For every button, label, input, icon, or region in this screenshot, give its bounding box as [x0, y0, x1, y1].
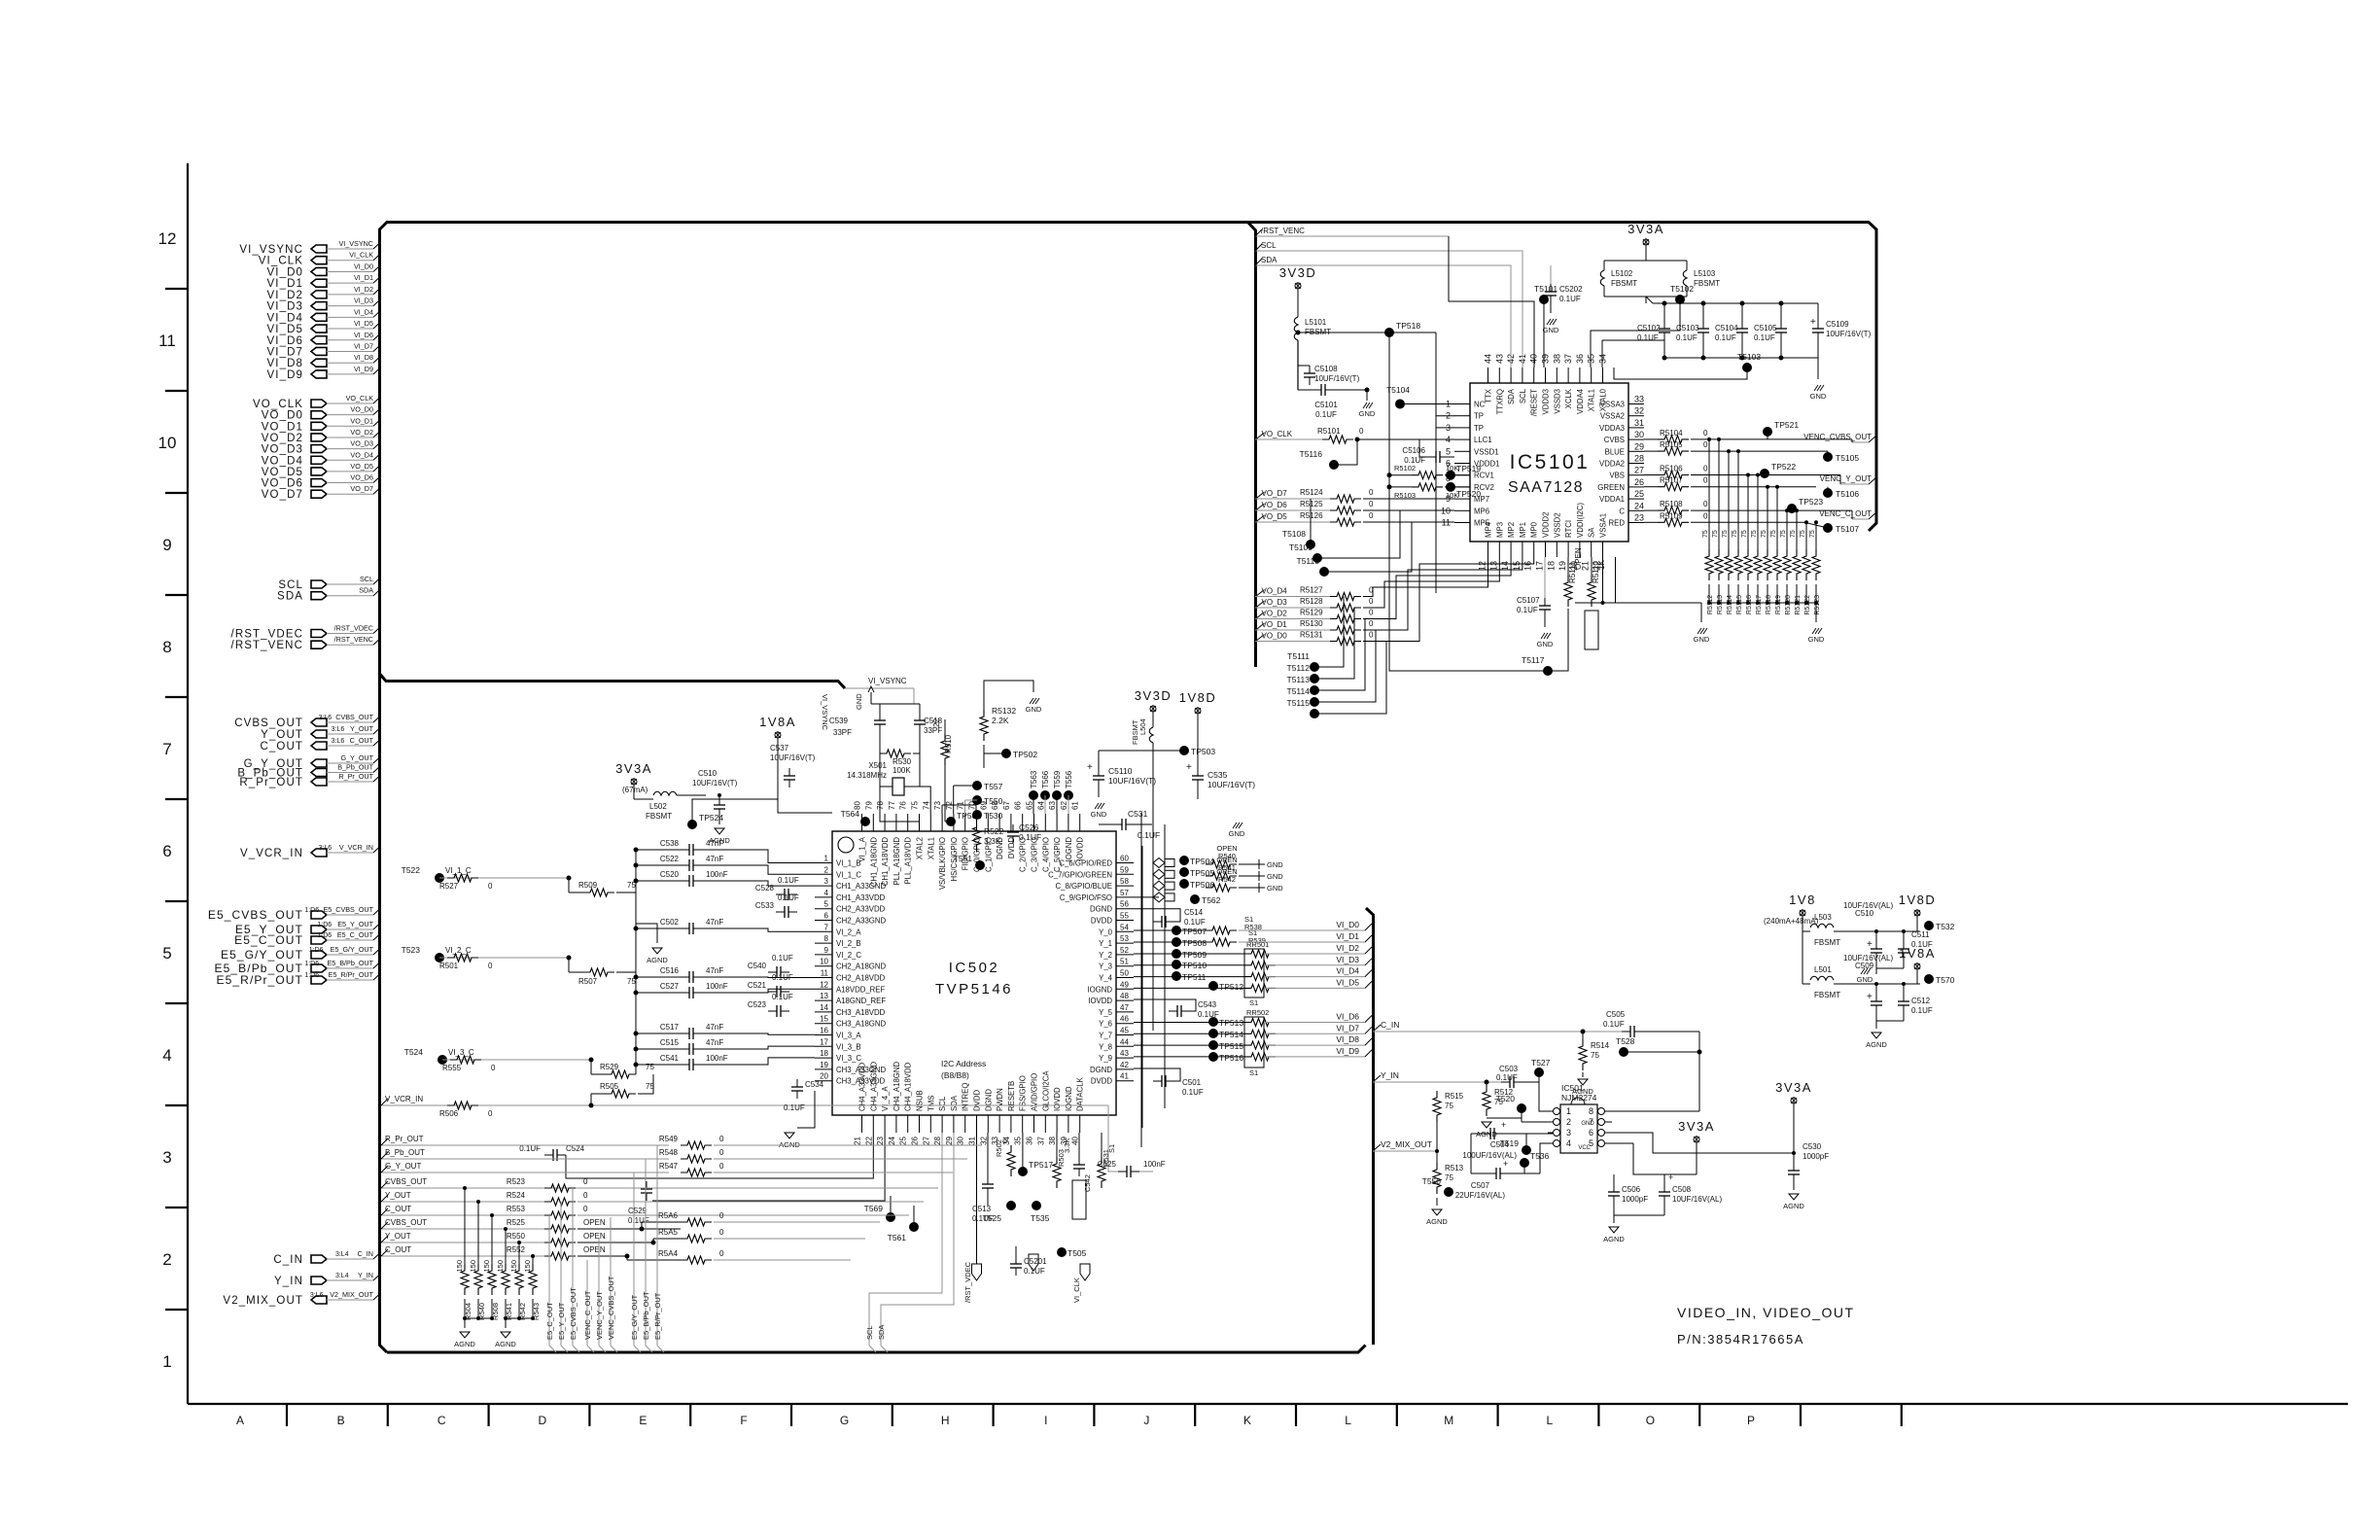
svg-text:0: 0: [1369, 609, 1374, 617]
svg-text:TP515: TP515: [1219, 1041, 1243, 1051]
svg-text:3V3A: 3V3A: [615, 761, 652, 776]
svg-text:47nF: 47nF: [706, 1038, 723, 1047]
svg-text:A18GND_REF: A18GND_REF: [836, 997, 886, 1005]
resistor R5115 75: [1737, 540, 1739, 549]
svg-text:VI_D4: VI_D4: [267, 312, 303, 324]
svg-text:AGND: AGND: [1426, 1217, 1448, 1226]
svg-text:TP519: TP519: [1456, 464, 1481, 473]
svg-text:J: J: [1143, 1414, 1149, 1427]
resistor R5132 2.2K vertical: [983, 692, 985, 710]
svg-text:0: 0: [1703, 511, 1708, 520]
svg-text:R501: R501: [439, 962, 459, 970]
svg-text:VO_D6: VO_D6: [262, 478, 303, 490]
svg-text:VO_D0: VO_D0: [1262, 632, 1288, 641]
svg-text:R523: R523: [507, 1177, 526, 1186]
svg-text:PLL_A18GND: PLL_A18GND: [892, 837, 901, 886]
svg-text:C522: C522: [660, 855, 680, 863]
svg-text:0.1UF: 0.1UF: [1184, 918, 1206, 927]
svg-text:V_VCR_IN: V_VCR_IN: [385, 1095, 423, 1103]
net E5_B/Pb_OUT drop to bottom edge: [645, 1159, 647, 1346]
svg-text:T532: T532: [1936, 922, 1955, 931]
svg-text:XTAL1: XTAL1: [927, 837, 935, 859]
svg-text:C530: C530: [1802, 1142, 1822, 1151]
svg-text:AGND: AGND: [1866, 1040, 1887, 1049]
IC502 pin 32 DGND: [987, 1115, 989, 1133]
capacitor C535 10UF/16V(T): [1197, 768, 1199, 776]
svg-text:0.1UF: 0.1UF: [1676, 333, 1697, 342]
capacitor C520 100nF: [634, 879, 639, 884]
svg-text:GND: GND: [1857, 975, 1873, 984]
svg-text:+: +: [1503, 1159, 1508, 1169]
svg-text:22: 22: [864, 1136, 873, 1144]
svg-text:3:L6: 3:L6: [332, 726, 345, 733]
svg-text:28: 28: [1634, 454, 1644, 464]
IC502 pin 49 IOGND: [1116, 988, 1134, 990]
net SCL entry top-right: [1255, 250, 1487, 252]
capacitor C5201 0.1UF: [1015, 1246, 1017, 1256]
svg-text:BLUE: BLUE: [1605, 447, 1625, 456]
svg-text:0: 0: [1369, 511, 1374, 520]
svg-text:VI_3_C: VI_3_C: [836, 1054, 861, 1063]
svg-text:6: 6: [162, 842, 171, 860]
wire 3V3D rail down: [1296, 331, 1301, 335]
svg-text:75: 75: [1790, 530, 1797, 538]
svg-text:TP502: TP502: [1013, 750, 1037, 759]
svg-text:1:D6: 1:D6: [304, 972, 319, 979]
svg-text:VI_D1: VI_D1: [1336, 931, 1359, 941]
resistor R540 150 vertical: [477, 1202, 479, 1264]
IC5101 pin 36 VDDA4: [1579, 367, 1581, 383]
svg-text:0: 0: [719, 1135, 724, 1143]
testpoint T519: [1522, 1145, 1531, 1155]
svg-text:3:L4: 3:L4: [335, 1273, 349, 1279]
svg-text:/RESET: /RESET: [1530, 389, 1539, 416]
resistor R5111 OPEN vertical: [1567, 557, 1569, 576]
svg-text:TP522: TP522: [1771, 462, 1796, 472]
row ground rail: [1664, 357, 1818, 359]
svg-text:58: 58: [1120, 877, 1129, 886]
svg-text:VIDEO_IN, VIDEO_OUT: VIDEO_IN, VIDEO_OUT: [1677, 1305, 1855, 1320]
svg-text:7: 7: [162, 740, 171, 758]
svg-text:R5114: R5114: [1727, 595, 1733, 614]
svg-text:R553: R553: [507, 1205, 526, 1213]
svg-text:GND: GND: [1359, 409, 1376, 418]
svg-text:S1: S1: [1249, 1068, 1258, 1077]
svg-text:R_Pr_OUT: R_Pr_OUT: [338, 772, 373, 781]
wires pins 2 3 to left: [1436, 415, 1454, 417]
ground for C5101: [1334, 389, 1367, 391]
svg-text:L: L: [1546, 1414, 1553, 1427]
net VI_D6 to edge: [1264, 1022, 1365, 1024]
svg-text:27: 27: [922, 1136, 930, 1144]
svg-text:VO_D2: VO_D2: [262, 433, 303, 444]
svg-text:CH2_A33GND: CH2_A33GND: [836, 917, 887, 926]
svg-text:PLL_A18VDD: PLL_A18VDD: [904, 837, 913, 885]
svg-text:VI_D9: VI_D9: [1336, 1046, 1359, 1056]
resistor R5101 0: [1322, 436, 1353, 443]
IC502 pin 52 Y_2: [1116, 954, 1134, 956]
svg-text:T505: T505: [1067, 1248, 1087, 1258]
svg-text:Y_OUT: Y_OUT: [385, 1191, 411, 1200]
svg-text:L5101: L5101: [1305, 318, 1327, 327]
svg-text:R5A5: R5A5: [658, 1228, 679, 1237]
svg-text:E5_Y_OUT: E5_Y_OUT: [557, 1302, 566, 1340]
svg-text:R550: R550: [507, 1232, 526, 1241]
svg-text:150: 150: [469, 1260, 477, 1273]
svg-text:I2C Address: I2C Address: [941, 1059, 986, 1068]
svg-text:T5105: T5105: [1836, 453, 1859, 463]
svg-text:AGND: AGND: [647, 956, 668, 964]
IC5101 pin 33 VSSA3: [1628, 403, 1644, 405]
IC5101 pin 32 VSSA2: [1628, 415, 1644, 417]
svg-text:C_OUT: C_OUT: [385, 1245, 411, 1254]
svg-text:R5116: R5116: [1746, 595, 1753, 614]
svg-text:0: 0: [719, 1148, 724, 1157]
svg-text:CVBS_OUT: CVBS_OUT: [335, 713, 373, 721]
IC5101 pin 16 MP0: [1533, 542, 1535, 557]
frame bottom edge: [387, 1346, 1366, 1353]
svg-text:VSSA3: VSSA3: [1600, 401, 1625, 409]
svg-text:XTAL1: XTAL1: [1588, 389, 1596, 411]
svg-text:21: 21: [854, 1136, 862, 1144]
svg-text:77: 77: [888, 801, 896, 810]
net VI_D7 to edge: [1264, 1032, 1365, 1034]
svg-text:VI_D8: VI_D8: [1336, 1034, 1359, 1044]
svg-text:IOGND: IOGND: [1087, 985, 1112, 994]
svg-text:VI_D2: VI_D2: [267, 290, 303, 301]
svg-text:8: 8: [1589, 1106, 1593, 1116]
svg-text:VO_D2: VO_D2: [1262, 610, 1288, 618]
resistor R505 75: [591, 1093, 605, 1095]
svg-text:C_7/GPIO/GREEN: C_7/GPIO/GREEN: [1048, 870, 1112, 879]
svg-text:OPEN: OPEN: [1574, 547, 1583, 570]
IC502 pin 44 Y_8: [1116, 1045, 1134, 1047]
testpoints T557 T550 T530: [972, 781, 982, 790]
svg-text:R5122: R5122: [1804, 595, 1811, 615]
svg-text:T5115: T5115: [1287, 698, 1311, 708]
wire RST_VDEC bottom: [976, 1133, 978, 1264]
svg-text:CH3_A18VDD: CH3_A18VDD: [836, 1008, 886, 1017]
IC502 pin 21 CH4_A33VDD: [861, 1115, 863, 1133]
svg-text:75: 75: [1591, 1051, 1599, 1060]
net VI_D5 to edge: [1264, 987, 1365, 989]
testpoint T520: [1517, 1103, 1526, 1113]
svg-text:2.2K: 2.2K: [992, 716, 1009, 725]
svg-text:L5102: L5102: [1611, 269, 1633, 278]
IC502 pin 79 CH1_A18GND: [872, 814, 874, 831]
svg-text:GND: GND: [1537, 640, 1554, 648]
testpoint T5105: [1823, 452, 1833, 462]
IC5101 pin 41 SCL: [1522, 367, 1523, 383]
testpoint T5101: [1539, 295, 1549, 304]
svg-text:CH1_A33GND: CH1_A33GND: [836, 882, 887, 891]
IC5101 pin 42 SDA: [1510, 367, 1512, 383]
svg-text:0: 0: [1000, 1139, 1009, 1143]
svg-text:R5123: R5123: [1814, 595, 1821, 615]
IC502 pin 55 DVDD: [1116, 920, 1134, 922]
svg-text:0: 0: [1703, 440, 1708, 449]
svg-text:VI_VSYNC: VI_VSYNC: [338, 239, 373, 248]
svg-text:9: 9: [162, 536, 171, 554]
svg-text:C528: C528: [755, 884, 775, 892]
testpoint T570: [1924, 974, 1934, 984]
svg-text:MP3: MP3: [1495, 522, 1504, 538]
svg-text:CVBS_OUT: CVBS_OUT: [385, 1177, 427, 1186]
svg-text:VI_D2: VI_D2: [354, 285, 373, 294]
svg-text:GREEN: GREEN: [1597, 483, 1625, 492]
capacitor C517 47nF: [634, 1032, 639, 1036]
svg-text:+: +: [1810, 317, 1816, 328]
svg-text:C512: C512: [1911, 997, 1931, 1005]
IC502 pin 15 CH3_A18GND: [815, 1023, 832, 1025]
IC502 pin 48 IOVDD: [1116, 999, 1134, 1001]
svg-text:T562: T562: [1202, 895, 1221, 905]
svg-text:0.1UF: 0.1UF: [1024, 1267, 1045, 1276]
svg-text:10UF/16V(T): 10UF/16V(T): [770, 753, 816, 762]
svg-text:R5115: R5115: [1736, 595, 1743, 614]
IC5101 pin 8 RCV2: [1454, 486, 1470, 488]
svg-text:E5_R/Pr_OUT: E5_R/Pr_OUT: [329, 970, 374, 979]
svg-text:R509: R509: [578, 881, 598, 890]
svg-text:GND: GND: [1810, 392, 1827, 401]
net VI_VSYNC wire from rail: [845, 687, 914, 689]
svg-text:E5_Y_OUT: E5_Y_OUT: [337, 920, 373, 928]
wire VSSA ground run: [1575, 557, 1616, 603]
IC502 pin 65 C_3/GPIO: [1033, 814, 1035, 831]
svg-text:R549: R549: [659, 1135, 679, 1143]
IC5101 pin 23 RED: [1628, 522, 1644, 524]
svg-text:76: 76: [899, 801, 908, 810]
svg-text:37: 37: [1036, 1136, 1045, 1144]
svg-text:56: 56: [1120, 900, 1129, 909]
svg-text:33PF: 33PF: [833, 728, 852, 737]
svg-text:32: 32: [1634, 406, 1644, 416]
svg-text:CH2_A33VDD: CH2_A33VDD: [836, 905, 886, 914]
IC502 pin 26 NSUB: [919, 1115, 921, 1133]
svg-text:GND: GND: [1026, 705, 1042, 714]
svg-text:4: 4: [824, 889, 829, 897]
svg-text:SCL: SCL: [1261, 241, 1277, 250]
svg-text:10UF/16V(T): 10UF/16V(T): [1314, 374, 1360, 383]
svg-text:FBSMT: FBSMT: [646, 812, 672, 821]
IC502 pin 43 Y_9: [1116, 1057, 1134, 1059]
svg-text:C_IN: C_IN: [1381, 1020, 1399, 1030]
IC5101 pin 38 VSSD3: [1556, 367, 1557, 383]
svg-text:VO_D1: VO_D1: [350, 416, 373, 425]
svg-text:SDA: SDA: [277, 591, 303, 603]
IC502 pin 66 C_2/GPIO: [1022, 814, 1024, 831]
svg-text:VI_CLK: VI_CLK: [349, 251, 373, 260]
svg-text:C523: C523: [748, 1000, 767, 1009]
IC502 pin 12 A18VDD_REF: [815, 988, 832, 990]
IC5101 pin 6 VDDD1: [1454, 463, 1470, 465]
AGND below IC502 left: [797, 1091, 815, 1128]
resistor R5108 0: [1658, 507, 1689, 514]
svg-text:C5108: C5108: [1314, 365, 1338, 373]
svg-text:C520: C520: [660, 870, 680, 879]
svg-text:Y_3: Y_3: [1099, 962, 1112, 971]
svg-text:14: 14: [820, 1003, 828, 1012]
capacitor C534 0.1UF: [796, 1079, 798, 1087]
svg-text:12: 12: [820, 980, 828, 989]
resistor R5128 0: [1330, 604, 1361, 612]
svg-text:GND: GND: [1543, 326, 1559, 334]
svg-text:FBSMT: FBSMT: [1131, 719, 1139, 745]
svg-text:T527: T527: [1531, 1058, 1551, 1067]
capacitor C5102 0.1UF: [1663, 303, 1665, 321]
svg-text:T551: T551: [954, 854, 973, 863]
svg-text:VDDD2: VDDD2: [1542, 512, 1551, 538]
svg-text:T536: T536: [1530, 1151, 1550, 1161]
svg-text:Y_9: Y_9: [1099, 1054, 1112, 1063]
svg-text:LLC1: LLC1: [1474, 436, 1492, 444]
svg-text:0: 0: [1703, 429, 1708, 437]
svg-text:+: +: [1867, 939, 1872, 950]
svg-text:R5102: R5102: [1394, 464, 1416, 472]
net flag VO_D1: [1256, 623, 1265, 630]
svg-text:CH4_A18GND: CH4_A18GND: [892, 1061, 901, 1111]
testpoint TP517: [1018, 1167, 1028, 1176]
capacitor C506 1000pF: [1613, 1174, 1615, 1184]
svg-text:75: 75: [1751, 530, 1758, 538]
IC502 pin 63 C_5/GPIO: [1056, 814, 1058, 831]
svg-text:46: 46: [1120, 1015, 1129, 1024]
svg-text:C: C: [1619, 507, 1625, 515]
IC5101 pin 22 VSSA1: [1602, 542, 1604, 557]
svg-text:CH2_A18VDD: CH2_A18VDD: [836, 974, 886, 983]
svg-text:/RST_VENC: /RST_VENC: [1261, 227, 1305, 235]
svg-text:P: P: [1747, 1414, 1755, 1427]
svg-text:73: 73: [933, 801, 942, 810]
svg-text:C533: C533: [755, 901, 775, 910]
svg-text:2: 2: [162, 1250, 171, 1269]
resistor R506 0: [447, 1102, 478, 1109]
svg-text:T564: T564: [841, 809, 860, 819]
testpoint TP521 VENC_CVBS_OUT flag: [1763, 427, 1772, 437]
resistor R5117 75: [1757, 540, 1759, 549]
svg-text:K: K: [1243, 1414, 1251, 1427]
svg-text:67: 67: [1002, 801, 1011, 810]
svg-text:T525: T525: [983, 1213, 1002, 1223]
svg-text:VDDI(I2C): VDDI(I2C): [1576, 503, 1585, 538]
svg-text:3V3D: 3V3D: [1135, 688, 1172, 703]
svg-text:T524: T524: [404, 1047, 424, 1057]
svg-text:VI_D3: VI_D3: [267, 301, 303, 313]
svg-text:36: 36: [1575, 354, 1585, 364]
wire SCL drop to pin41: [1487, 251, 1522, 367]
svg-text:O: O: [1646, 1414, 1655, 1427]
svg-text:CVBS_OUT: CVBS_OUT: [234, 717, 303, 729]
svg-text:15: 15: [820, 1015, 828, 1024]
resistor R5112 75: [1708, 540, 1710, 549]
IC5101 pin 39 VDDD3: [1545, 367, 1547, 383]
svg-text:47nF: 47nF: [706, 1023, 723, 1032]
resistor R5124 0: [1330, 495, 1361, 503]
svg-text:E5_G/Y_OUT: E5_G/Y_OUT: [630, 1294, 639, 1340]
svg-text:H: H: [941, 1414, 950, 1427]
svg-text:0.1UF: 0.1UF: [1911, 1006, 1933, 1015]
svg-text:10UF/16V(T): 10UF/16V(T): [1207, 780, 1255, 789]
net E5_Y_OUT drop to bottom edge: [560, 1202, 562, 1346]
capacitor C5107 0.1UF below IC5101: [1544, 557, 1546, 598]
svg-text:R510: R510: [944, 734, 953, 753]
inductor L5102 FBSMT: [1645, 246, 1647, 261]
resistor R530 100K: [880, 750, 911, 757]
svg-text:VENC_CVBS_OUT: VENC_CVBS_OUT: [1803, 433, 1872, 441]
svg-text:VI_D3: VI_D3: [1336, 955, 1359, 964]
svg-text:VI_2_A: VI_2_A: [836, 927, 861, 936]
testpoint TP522 VENC_Y_OUT flag: [1760, 469, 1769, 478]
IC502 pin 47 Y_5: [1116, 1011, 1134, 1013]
svg-text:C_OUT: C_OUT: [385, 1205, 411, 1213]
IC5101 pin 13 MP3: [1498, 542, 1500, 557]
testpoint TP524: [687, 820, 697, 829]
svg-text:R527: R527: [439, 882, 459, 891]
IC502 pin 31 DVDD: [976, 1115, 978, 1133]
IC502 pin 14 CH3_A18VDD: [815, 1011, 832, 1013]
svg-text:VI_D1: VI_D1: [354, 273, 373, 282]
svg-text:C540: C540: [748, 962, 767, 970]
svg-text:RR502: RR502: [1246, 1008, 1269, 1017]
svg-text:GND: GND: [1694, 635, 1710, 644]
border left ruler line: [187, 163, 189, 1404]
svg-text:GND: GND: [1267, 884, 1283, 892]
svg-text:26: 26: [1634, 477, 1644, 487]
IC5101 pin 43 TTXRQ: [1498, 367, 1500, 383]
capacitor C5105 0.1UF: [1780, 303, 1782, 321]
op IC502 body: [832, 831, 1116, 1115]
svg-text:0.1UF: 0.1UF: [1137, 830, 1160, 840]
svg-text:3: 3: [1566, 1128, 1571, 1137]
IC502 pin 72 HS/CS/GPIO: [953, 814, 955, 831]
svg-text:PWDN: PWDN: [996, 1088, 1004, 1111]
inductor L502 FBSMT: [633, 786, 635, 799]
op IC5101 body: [1470, 383, 1628, 542]
svg-text:1V8A: 1V8A: [1899, 946, 1936, 961]
svg-text:SA: SA: [1588, 527, 1596, 538]
svg-text:Y_OUT: Y_OUT: [261, 729, 303, 741]
svg-text:B_Pb_OUT: B_Pb_OUT: [385, 1148, 425, 1157]
op-amp feedback wire pin8: [1612, 1110, 1699, 1112]
capacitor C522 47nF: [634, 863, 639, 868]
IC502 pin 75 XTAL2: [919, 814, 921, 831]
IC5101 pin 10 MP6: [1454, 509, 1470, 511]
net flag VO_D3: [1256, 601, 1265, 608]
svg-text:VI_VSYNC: VI_VSYNC: [239, 244, 303, 256]
svg-text:1:D6: 1:D6: [317, 922, 332, 928]
resistor R510 22 vertical: [944, 719, 946, 734]
svg-text:XTAL2: XTAL2: [916, 837, 925, 859]
svg-text:C507: C507: [1471, 1181, 1490, 1190]
svg-text:Y_7: Y_7: [1099, 1032, 1112, 1040]
svg-text:TP517: TP517: [1029, 1160, 1053, 1170]
net flag VO_D4: [1256, 590, 1265, 597]
svg-text:VO_D0: VO_D0: [350, 405, 373, 414]
svg-text:3V3D: 3V3D: [1279, 265, 1317, 280]
svg-text:5: 5: [162, 944, 171, 962]
IC502 pin 34 RESETB: [1010, 1115, 1012, 1133]
svg-text:B: B: [337, 1414, 345, 1427]
svg-text:3V3A: 3V3A: [1678, 1119, 1715, 1134]
svg-text:T522: T522: [402, 865, 421, 875]
border bottom ruler line: [188, 1403, 2348, 1405]
net VI_D2 to edge: [1264, 953, 1365, 955]
resistor R541 150 vertical: [502, 1264, 509, 1295]
svg-text:VI_D5: VI_D5: [354, 319, 373, 328]
svg-text:VSSA2: VSSA2: [1600, 412, 1625, 421]
capacitor C5104 0.1UF: [1741, 303, 1743, 321]
svg-text:T559: T559: [1053, 770, 1062, 788]
